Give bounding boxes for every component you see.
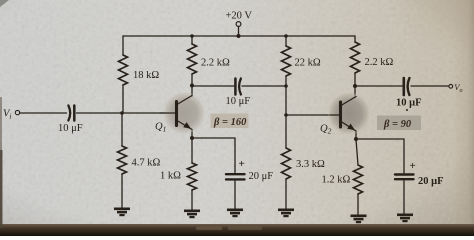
wire output line — [355, 85, 402, 87]
svg-text:1 kΩ: 1 kΩ — [160, 171, 181, 182]
Q2 emitter arrowhead — [347, 124, 355, 131]
wire 1k top lead — [191, 138, 193, 163]
svg-text:10 μF: 10 μF — [226, 96, 251, 107]
wire supply drop — [238, 27, 240, 37]
redraw Q2 over blob — [339, 102, 342, 127]
resistor RC2 2.2k — [351, 42, 360, 73]
wire CE2 to ground — [403, 180, 405, 214]
svg-text:10 μF: 10 μF — [396, 98, 422, 109]
node emitter2 — [354, 137, 358, 141]
wire to CE2 — [403, 139, 405, 173]
node rail-RC1 — [190, 34, 194, 38]
wire Q1 emitter down — [191, 130, 193, 139]
svg-text:20 μF: 20 μF — [249, 171, 274, 182]
ground under 3.3k — [278, 209, 294, 218]
wire 3.3k bottom lead — [285, 179, 287, 209]
node emitter1 — [190, 136, 194, 140]
ground under 1k — [184, 210, 200, 219]
node collector1-coupling — [190, 84, 194, 88]
transistor Q1 symbol — [175, 102, 178, 126]
wire 1k bottom lead — [191, 190, 193, 210]
wire to CE1 — [234, 138, 236, 173]
svg-text:β = 90: β = 90 — [383, 119, 412, 130]
beta2 highlight box — [377, 116, 421, 131]
node base2 — [284, 113, 288, 117]
top-left corner smudge — [0, 0, 9, 7]
ground under CE2 — [397, 214, 413, 223]
wire output right — [411, 85, 449, 87]
supply terminal circle — [236, 22, 241, 27]
wire emitter node 2 right — [356, 138, 404, 140]
svg-text:+20 V: +20 V — [226, 11, 253, 22]
resistor RE1 1k — [188, 163, 197, 190]
transistor Q1 shaded envelope — [163, 92, 206, 135]
bottom dark band (photo edge) — [0, 224, 474, 236]
transistor Q2 shaded envelope — [328, 92, 371, 135]
svg-text:β = 160: β = 160 — [213, 117, 247, 128]
resistor RE2 1.2k — [354, 165, 363, 194]
wire 18k bottom lead — [122, 85, 124, 113]
svg-text:4.7 kΩ: 4.7 kΩ — [132, 158, 161, 169]
resistor RC1 2.2k — [188, 44, 197, 74]
svg-text:+: + — [239, 158, 245, 170]
node rail-22k — [284, 34, 288, 38]
svg-text:1.2 kΩ: 1.2 kΩ — [322, 175, 351, 186]
node input-base — [120, 111, 124, 115]
resistor R 18k — [119, 55, 128, 85]
redraw Q1 over blob — [175, 102, 178, 126]
wire 18k top lead — [122, 36, 124, 55]
svg-text:2.2 kΩ: 2.2 kΩ — [365, 57, 394, 68]
node rail-supply — [237, 34, 241, 38]
wire coupling line left — [192, 85, 234, 87]
ground under 1.2k — [351, 215, 367, 224]
wire collector column Q1 — [191, 74, 193, 97]
wire emitter node right — [192, 137, 235, 139]
output terminal circle — [449, 84, 453, 88]
svg-text:20 μF: 20 μF — [418, 176, 444, 187]
svg-text:10 μF: 10 μF — [58, 123, 83, 134]
left edge shadow — [0, 97, 2, 228]
beta1 highlight box — [211, 114, 249, 129]
wire 1.2k bottom lead — [357, 194, 359, 215]
wire 2.2k top lead — [191, 36, 193, 44]
resistor RE? 3.3k — [282, 148, 291, 179]
wire base Q2 — [286, 114, 340, 116]
wire 4.7k bottom lead — [121, 174, 123, 208]
input terminal circle — [15, 110, 19, 114]
svg-text:18 kΩ: 18 kΩ — [133, 70, 159, 81]
wire coupling line right — [242, 85, 286, 87]
ground under 4.7k — [114, 208, 130, 217]
svg-text:22 kΩ: 22 kΩ — [295, 58, 321, 69]
capacitor Cc 10uF — [234, 79, 237, 95]
node coupling-22k — [284, 84, 288, 88]
capacitor Co 10uF — [402, 78, 405, 95]
wire 22k bottom to base node — [285, 76, 287, 148]
transistor Q2 symbol — [339, 102, 342, 127]
wire 2.2k right top lead — [354, 36, 356, 42]
capacitor Ci 10uF — [68, 106, 70, 121]
wire 22k top lead — [285, 36, 287, 46]
capacitor CE1 20uF — [226, 173, 245, 175]
svg-text:3.3 kΩ: 3.3 kΩ — [296, 159, 325, 170]
ground under CE1 — [227, 209, 243, 218]
wire 4.7k top lead — [121, 113, 123, 146]
svg-text:2.2 kΩ: 2.2 kΩ — [201, 58, 230, 69]
Q1 emitter arrowhead — [183, 122, 191, 129]
wire top rail — [123, 35, 355, 37]
node collector2-output — [353, 84, 357, 88]
svg-text:+: + — [410, 160, 416, 172]
resistor R 22k — [282, 46, 291, 76]
wire CE1 to ground — [234, 180, 236, 209]
capacitor CE2 20uF — [395, 173, 414, 175]
resistor RB2 4.7k — [118, 146, 127, 174]
wire collector column Q2 — [354, 73, 356, 98]
wire input to base — [77, 112, 177, 114]
wire input segment left — [20, 112, 67, 114]
wire Q2 emitter down — [355, 131, 357, 139]
wire 1.2k top lead — [356, 139, 358, 165]
